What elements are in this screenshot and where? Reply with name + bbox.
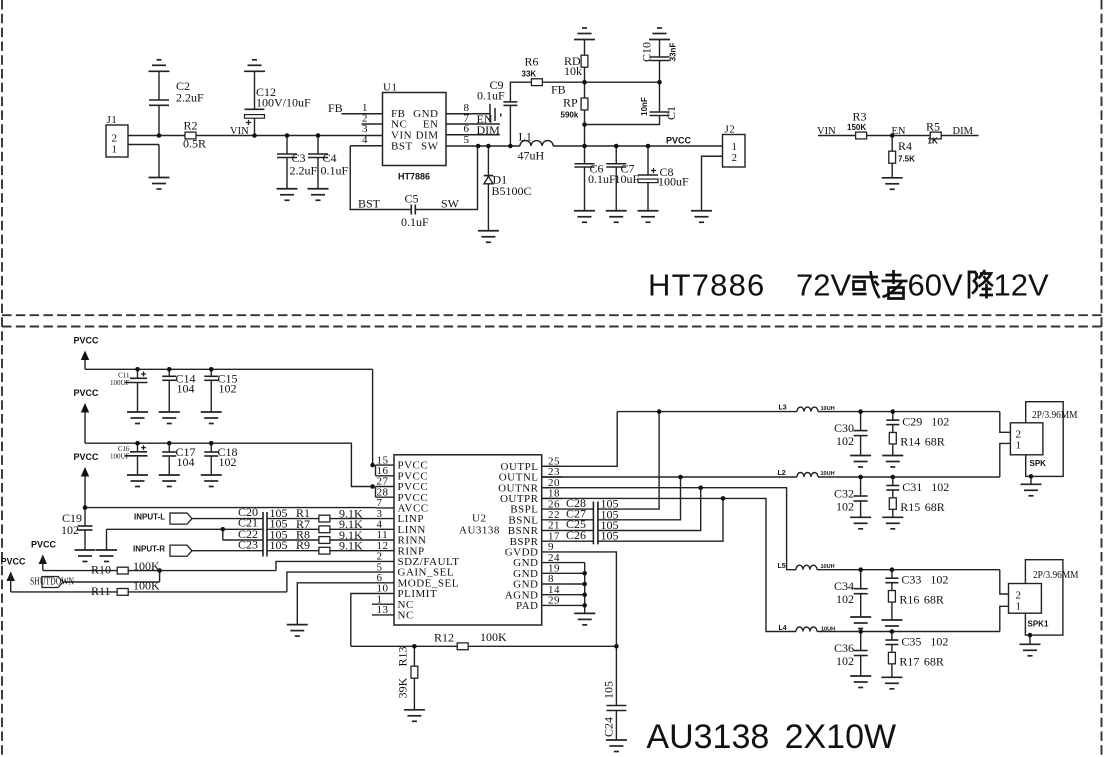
svg-text:R14: R14 <box>900 435 920 449</box>
svg-text:1K: 1K <box>928 137 938 146</box>
svg-text:100K: 100K <box>480 630 507 644</box>
svg-text:100K: 100K <box>133 559 160 573</box>
svg-text:PVCC: PVCC <box>74 388 100 398</box>
svg-text:PVCC: PVCC <box>74 452 100 462</box>
svg-text:HT7886: HT7886 <box>398 172 430 182</box>
svg-text:C31: C31 <box>902 480 922 494</box>
svg-text:10nF: 10nF <box>640 97 649 116</box>
svg-text:100V/10uF: 100V/10uF <box>256 96 311 110</box>
svg-text:C30: C30 <box>834 421 854 435</box>
svg-text:PVCC: PVCC <box>1 557 27 567</box>
svg-text:10UH: 10UH <box>821 471 835 477</box>
svg-text:L1: L1 <box>519 130 532 144</box>
svg-text:102: 102 <box>931 480 949 494</box>
svg-text:102: 102 <box>930 573 948 587</box>
svg-text:C35: C35 <box>901 635 921 649</box>
svg-text:100K: 100K <box>133 579 160 593</box>
svg-text:12V: 12V <box>994 268 1049 303</box>
svg-text:R16: R16 <box>899 593 919 607</box>
svg-text:SW: SW <box>421 141 439 153</box>
svg-text:7.5K: 7.5K <box>898 155 915 164</box>
svg-text:R3: R3 <box>853 110 867 124</box>
svg-text:L5: L5 <box>778 563 786 570</box>
svg-text:4: 4 <box>362 134 368 146</box>
svg-text:9.1K: 9.1K <box>339 539 363 553</box>
svg-text:C36: C36 <box>834 641 854 655</box>
svg-text:0.5R: 0.5R <box>183 137 206 151</box>
svg-text:R12: R12 <box>434 631 454 645</box>
svg-text:100UF: 100UF <box>110 379 130 387</box>
svg-text:RP: RP <box>563 96 578 110</box>
svg-text:PVCC: PVCC <box>666 136 692 146</box>
svg-text:102: 102 <box>836 499 854 513</box>
svg-text:47uH: 47uH <box>518 149 545 163</box>
svg-text:R2: R2 <box>184 119 198 133</box>
svg-text:2P/3.96MM: 2P/3.96MM <box>1032 409 1078 421</box>
svg-text:39K: 39K <box>396 677 410 698</box>
svg-text:68R: 68R <box>925 500 945 514</box>
svg-text:J1: J1 <box>107 114 118 126</box>
svg-text:DIM: DIM <box>477 123 501 137</box>
svg-text:10UH: 10UH <box>821 406 835 412</box>
svg-text:1: 1 <box>1016 440 1022 452</box>
svg-text:FB: FB <box>551 83 566 97</box>
svg-text:FB: FB <box>328 101 343 115</box>
svg-text:105: 105 <box>601 529 619 543</box>
svg-text:R5: R5 <box>926 120 940 134</box>
svg-text:2.2uF: 2.2uF <box>290 164 318 178</box>
svg-text:PVCC: PVCC <box>74 336 100 346</box>
svg-text:102: 102 <box>61 523 79 537</box>
svg-text:R15: R15 <box>900 500 920 514</box>
svg-text:102: 102 <box>836 434 854 448</box>
svg-text:SPK1: SPK1 <box>1028 620 1049 629</box>
svg-text:2: 2 <box>732 152 738 164</box>
svg-text:60V: 60V <box>908 268 963 303</box>
svg-text:B5100C: B5100C <box>492 184 532 198</box>
svg-text:R4: R4 <box>898 139 912 153</box>
svg-text:INPUT-L: INPUT-L <box>134 513 165 522</box>
svg-text:C23: C23 <box>238 538 258 552</box>
svg-text:C33: C33 <box>901 573 921 587</box>
svg-text:104: 104 <box>177 455 195 469</box>
svg-text:33nF: 33nF <box>669 43 678 62</box>
svg-text:SPK: SPK <box>1030 459 1047 468</box>
svg-text:104: 104 <box>177 382 195 396</box>
svg-text:PVCC: PVCC <box>31 540 57 550</box>
svg-text:L3: L3 <box>779 405 787 412</box>
svg-text:C26: C26 <box>566 528 586 542</box>
svg-text:L4: L4 <box>779 625 787 632</box>
svg-text:102: 102 <box>836 654 854 668</box>
svg-text:102: 102 <box>836 592 854 606</box>
svg-text:1: 1 <box>1016 601 1022 613</box>
svg-text:PAD: PAD <box>516 600 539 612</box>
svg-text:AU3138: AU3138 <box>459 525 500 537</box>
svg-text:U1: U1 <box>383 82 397 94</box>
svg-text:C24: C24 <box>602 717 616 737</box>
svg-text:72V: 72V <box>796 268 851 303</box>
svg-text:0.1uF: 0.1uF <box>588 172 616 186</box>
svg-text:C29: C29 <box>902 415 922 429</box>
svg-text:HT7886: HT7886 <box>648 268 766 303</box>
svg-text:R10: R10 <box>91 563 111 577</box>
svg-text:J2: J2 <box>725 124 736 136</box>
svg-text:VIN: VIN <box>230 126 249 137</box>
svg-text:L2: L2 <box>778 470 786 477</box>
svg-text:2.2uF: 2.2uF <box>176 91 204 105</box>
svg-text:68R: 68R <box>925 435 945 449</box>
svg-text:SW: SW <box>441 197 460 211</box>
svg-text:0.1uF: 0.1uF <box>477 89 505 103</box>
svg-text:R13: R13 <box>396 646 410 666</box>
svg-text:BST: BST <box>391 141 413 153</box>
svg-text:2X10W: 2X10W <box>785 718 897 756</box>
svg-text:2P/3.96MM: 2P/3.96MM <box>1033 569 1079 581</box>
svg-text:AU3138: AU3138 <box>646 718 769 756</box>
svg-text:10UH: 10UH <box>821 626 835 632</box>
svg-text:590k: 590k <box>561 111 579 120</box>
svg-text:10uF: 10uF <box>615 172 640 186</box>
svg-text:R11: R11 <box>91 584 111 598</box>
svg-text:100uF: 100uF <box>658 175 689 189</box>
svg-text:10k: 10k <box>564 64 582 78</box>
svg-text:105: 105 <box>602 681 616 699</box>
svg-text:10UH: 10UH <box>821 564 835 570</box>
svg-text:DIM: DIM <box>953 126 974 137</box>
svg-text:R17: R17 <box>899 655 919 669</box>
svg-text:68R: 68R <box>924 593 944 607</box>
svg-text:102: 102 <box>930 635 948 649</box>
svg-text:C1: C1 <box>664 106 678 120</box>
svg-text:INPUT-R: INPUT-R <box>133 545 165 554</box>
svg-text:C32: C32 <box>834 486 854 500</box>
svg-text:C10: C10 <box>640 42 654 62</box>
svg-text:150K: 150K <box>847 123 866 132</box>
svg-text:102: 102 <box>219 382 237 396</box>
svg-text:0.1uF: 0.1uF <box>401 215 429 229</box>
svg-text:102: 102 <box>931 415 949 429</box>
svg-text:100UF: 100UF <box>110 453 130 461</box>
svg-text:R6: R6 <box>525 55 539 69</box>
svg-text:0.1uF: 0.1uF <box>321 164 349 178</box>
svg-text:C5: C5 <box>405 192 419 206</box>
svg-text:U2: U2 <box>472 513 486 525</box>
svg-text:1: 1 <box>112 144 118 156</box>
svg-text:29: 29 <box>548 595 560 607</box>
svg-text:NC: NC <box>398 610 414 622</box>
svg-text:68R: 68R <box>924 655 944 669</box>
svg-text:102: 102 <box>219 455 237 469</box>
svg-text:R9: R9 <box>296 538 310 552</box>
svg-text:VIN: VIN <box>817 126 836 137</box>
svg-text:C34: C34 <box>834 579 854 593</box>
svg-text:SHUTDOWN: SHUTDOWN <box>30 577 74 588</box>
svg-text:13: 13 <box>377 604 389 616</box>
svg-text:5: 5 <box>464 134 470 146</box>
svg-text:33K: 33K <box>522 70 537 79</box>
svg-text:BST: BST <box>358 197 381 211</box>
